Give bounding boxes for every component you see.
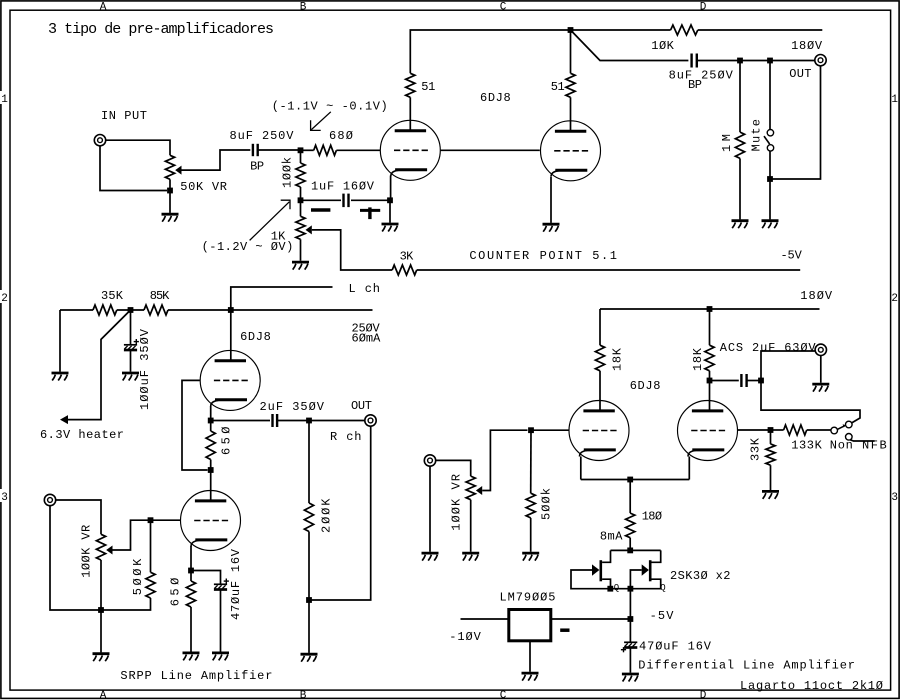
svg-text:50K VR: 50K VR bbox=[180, 180, 227, 194]
svg-text:1ØØK VR: 1ØØK VR bbox=[79, 525, 93, 578]
wire 100uF bottom to ground bbox=[130, 351, 132, 372]
wire grid node to tube V3a bbox=[531, 429, 569, 431]
frame row label 3 left bbox=[0, 489, 9, 504]
ground under 100uF bbox=[122, 373, 139, 381]
resistor 500k grid leak diff bbox=[526, 493, 535, 518]
input jack J1 bbox=[94, 135, 105, 146]
polarity minus mark 1uF bbox=[311, 208, 330, 212]
pot 50K VR wiper arrow bbox=[175, 166, 181, 175]
wire pot bottom to ground node bbox=[169, 179, 171, 213]
svg-text:R ch: R ch bbox=[330, 430, 362, 444]
wire srpp wiper up to grid node bbox=[113, 520, 151, 550]
wire 200K bottom bbox=[308, 532, 310, 601]
svg-text:OUT: OUT bbox=[789, 67, 811, 81]
svg-text:1: 1 bbox=[1, 94, 8, 106]
resistor 18K left plate bbox=[595, 345, 604, 371]
wire V3b cathode lead bbox=[688, 457, 690, 480]
wire SRPP supply rail bbox=[60, 309, 93, 311]
wire V2b cathode lead bbox=[190, 546, 192, 571]
wire 680 to tube V1a grid bbox=[336, 149, 380, 151]
wire 35K to 85K bbox=[117, 309, 144, 311]
capacitor ACS 2uF 630V bbox=[741, 374, 746, 387]
node cathode bus junction bbox=[627, 477, 633, 483]
wire V2a grid tie bbox=[182, 380, 208, 470]
potentiometer 100K VR diff element bbox=[466, 476, 475, 500]
ground under 1M bbox=[732, 221, 749, 229]
svg-text:2ØØK: 2ØØK bbox=[320, 498, 334, 533]
potentiometer 100K VR srpp element bbox=[96, 534, 105, 560]
svg-text:3: 3 bbox=[1, 492, 8, 504]
wire V1a 51 to rail bbox=[410, 30, 570, 73]
wire plate lead V2a bbox=[230, 310, 232, 361]
potentiometer 1K bias element bbox=[296, 216, 305, 239]
resistor 3K bias feed bbox=[392, 265, 417, 275]
svg-text:6DJ8: 6DJ8 bbox=[240, 330, 271, 344]
svg-text:D: D bbox=[700, 1, 707, 13]
svg-text:3K: 3K bbox=[400, 249, 414, 263]
potentiometer 50K VR element bbox=[165, 155, 174, 179]
wire 133K to switch bbox=[807, 429, 831, 431]
svg-text:(-1.2V ~ ØV): (-1.2V ~ ØV) bbox=[202, 240, 294, 254]
wire 100k from node down bbox=[300, 150, 302, 163]
tube V3a 6DJ8 diff left bbox=[569, 401, 629, 461]
wire NFB switch lower tail bbox=[850, 440, 874, 441]
wire rail to 10K bbox=[571, 29, 671, 31]
svg-text:(-1.1V ~ -0.1V): (-1.1V ~ -0.1V) bbox=[272, 99, 388, 113]
resistor 35K supply filter bbox=[93, 305, 117, 315]
svg-text:B: B bbox=[300, 690, 307, 700]
node SRPP grid junction bbox=[148, 517, 154, 523]
svg-text:A: A bbox=[100, 690, 107, 700]
polarity minus mark regulator bbox=[560, 628, 569, 632]
wire 2uF to out jack bbox=[277, 420, 364, 422]
frame row label 2 left bbox=[0, 290, 9, 305]
wire V1b 51 top to rail bbox=[570, 30, 572, 73]
capacitor 8uF 250V BP output bbox=[692, 54, 697, 68]
output jack OUT srpp bbox=[365, 415, 376, 426]
node diff rail junction bbox=[707, 306, 713, 312]
wire 1K bottom to ground bbox=[300, 239, 302, 260]
pot 1K wiper arrow bbox=[306, 225, 312, 234]
transistor Q2 2SK30 right bbox=[630, 550, 660, 588]
ground under diff jack bbox=[812, 384, 829, 392]
svg-text:47ØuF 16V: 47ØuF 16V bbox=[229, 548, 243, 620]
wire V2b grid lead bbox=[151, 519, 181, 521]
svg-text:6DJ8: 6DJ8 bbox=[630, 379, 661, 393]
wire diagonal rail to output line bbox=[571, 30, 689, 61]
wire input jack to volume pot top bbox=[106, 140, 170, 155]
ground under 1K pot bbox=[292, 262, 309, 270]
svg-text:IN PUT: IN PUT bbox=[101, 109, 147, 123]
wire cap to grid node bbox=[258, 149, 301, 151]
svg-text:C: C bbox=[500, 1, 507, 13]
capacitor 470uF 16V diff bbox=[621, 642, 637, 652]
ground under 50K VR bbox=[162, 214, 179, 222]
resistor 650 SRPP upper cathode bbox=[206, 431, 215, 460]
node mute junction bbox=[767, 58, 773, 64]
wire V3a cathode lead bbox=[580, 457, 582, 480]
wire diff supply rail bbox=[600, 308, 820, 310]
svg-text:1ØØk: 1ØØk bbox=[280, 157, 294, 188]
regulator LM79005 box bbox=[509, 610, 551, 641]
svg-text:8mA: 8mA bbox=[600, 530, 623, 544]
svg-text:5ØØk: 5ØØk bbox=[539, 488, 553, 520]
node SRPP output junction bbox=[208, 418, 214, 424]
ground under 470uF diff bbox=[622, 674, 639, 682]
svg-text:C: C bbox=[500, 690, 507, 700]
svg-text:Q: Q bbox=[660, 583, 665, 593]
wire cathode node up to V1a cathode bbox=[390, 176, 392, 201]
svg-text:18Ø: 18Ø bbox=[642, 510, 662, 524]
wire 33K to ground bbox=[770, 465, 772, 490]
tube V3b 6DJ8 diff right bbox=[678, 401, 738, 461]
wire diff wiper to grid bbox=[482, 430, 527, 490]
wire V3b grid to NFB node bbox=[738, 429, 771, 431]
wire diff jack to pot bbox=[436, 460, 471, 476]
wire 180 to FET node bbox=[629, 538, 631, 551]
wire grid node to 500K bbox=[150, 520, 152, 572]
wire 1M bottom to ground bbox=[739, 158, 741, 219]
capacitor 470uF 16V srpp bbox=[214, 579, 229, 590]
ground under 200K bbox=[301, 654, 318, 662]
ground SRPP rail left bbox=[52, 373, 69, 381]
svg-text:BP: BP bbox=[250, 160, 264, 174]
wire bias node to 1uF cap bbox=[301, 199, 342, 201]
input jack SRPP bbox=[44, 494, 55, 505]
svg-text:65Ø: 65Ø bbox=[168, 578, 182, 607]
ground under V1b cathode bbox=[543, 224, 560, 232]
output jack OUT top bbox=[815, 55, 826, 66]
node SRPP plate supply junction bbox=[228, 307, 234, 313]
svg-text:L ch: L ch bbox=[349, 282, 381, 296]
svg-text:133K: 133K bbox=[791, 439, 822, 453]
node grid divider junction bbox=[298, 147, 304, 153]
svg-text:85K: 85K bbox=[150, 289, 170, 303]
node cathode junction V1a bbox=[387, 197, 393, 203]
ground under Mute bbox=[762, 221, 779, 229]
wire bus to ground bbox=[100, 610, 102, 652]
output jack 630V diff bbox=[815, 344, 826, 355]
svg-text:2: 2 bbox=[1, 293, 8, 305]
wire FET drain bus bbox=[611, 549, 661, 551]
wire ACS cap to output node bbox=[747, 380, 761, 382]
wire out jack return srpp bbox=[309, 426, 371, 600]
node mute output junction bbox=[767, 176, 773, 182]
wire 133K left stub bbox=[771, 429, 784, 431]
ground under diff pot bbox=[462, 553, 479, 561]
switch Mute bbox=[764, 130, 774, 152]
svg-text:3 tipo de pre-amplificadores: 3 tipo de pre-amplificadores bbox=[48, 21, 274, 38]
resistor 133K feedback bbox=[784, 425, 807, 435]
wire midpoint to V2b plate bbox=[210, 470, 212, 501]
svg-text:1uF 16ØV: 1uF 16ØV bbox=[311, 179, 375, 193]
wire 100uF top bbox=[130, 310, 132, 344]
wire node to 680 resistor bbox=[301, 149, 314, 151]
wire 1M resistor top bbox=[739, 61, 741, 133]
ground under V1a cathode bbox=[382, 224, 399, 232]
wire rail to 18K left bbox=[599, 309, 601, 345]
wire L ch stub bbox=[231, 287, 333, 310]
svg-text:51: 51 bbox=[421, 80, 435, 94]
resistor 10K supply bbox=[671, 25, 698, 35]
resistor 200K load srpp bbox=[304, 503, 313, 532]
svg-text:OUT: OUT bbox=[351, 399, 372, 413]
svg-text:A: A bbox=[100, 1, 107, 13]
svg-text:47ØuF 16V: 47ØuF 16V bbox=[639, 640, 712, 654]
wire pot wiper to coupling cap bbox=[182, 150, 251, 170]
svg-text:5ØØK: 5ØØK bbox=[131, 558, 145, 595]
node srpp ground bus bbox=[98, 607, 104, 613]
wire bus to 180 bbox=[629, 480, 631, 514]
ground under 470uF srpp bbox=[212, 653, 229, 661]
node V2b cathode junction bbox=[188, 568, 194, 574]
svg-text:1ØØK VR: 1ØØK VR bbox=[450, 474, 464, 531]
ground srpp input bbox=[93, 654, 110, 662]
wire output node to jack bbox=[761, 351, 815, 381]
ground under 500k diff bbox=[522, 553, 539, 561]
svg-text:8uF 250V: 8uF 250V bbox=[230, 129, 295, 143]
ground under 650 lower bbox=[183, 653, 200, 661]
wire V1a plate up bbox=[409, 97, 411, 130]
wire 1K wiper to -5V line bbox=[312, 230, 392, 270]
wire NFB feedback path bbox=[761, 381, 860, 424]
pot srpp wiper arrow bbox=[106, 546, 112, 555]
ground under diff jack input bbox=[422, 553, 439, 561]
wire FET source bus bbox=[607, 588, 633, 590]
wire mute switch top bbox=[769, 61, 771, 130]
node 200K junction bbox=[306, 418, 312, 424]
tube V2a 6DJ8 SRPP upper bbox=[200, 350, 260, 410]
wire output node to 2uF bbox=[211, 420, 270, 422]
wire 470uF diff to ground bbox=[629, 648, 631, 673]
wire 200K top bbox=[308, 421, 310, 504]
wire 200K node to ground bbox=[308, 600, 310, 653]
wire srpp jack return bbox=[50, 506, 101, 610]
svg-text:1ØØuF 35ØV: 1ØØuF 35ØV bbox=[138, 328, 152, 410]
wire -10V input bbox=[461, 618, 509, 620]
polarity plus mark 1uF bbox=[360, 207, 380, 219]
svg-text:-5V: -5V bbox=[650, 609, 675, 623]
svg-text:68Ø: 68Ø bbox=[329, 129, 353, 143]
svg-text:6.3V heater: 6.3V heater bbox=[40, 428, 124, 442]
annotation arrow to grid bbox=[311, 112, 331, 131]
svg-text:18K: 18K bbox=[691, 347, 705, 371]
junction pot bottom bbox=[167, 188, 173, 194]
svg-text:18ØV: 18ØV bbox=[791, 39, 823, 53]
svg-text:51: 51 bbox=[551, 80, 565, 94]
node diff plate junction bbox=[707, 378, 713, 384]
wire regulator output bbox=[551, 618, 631, 620]
wire diff jack to ground bbox=[820, 356, 822, 383]
wire srpp jack to pot bbox=[56, 500, 101, 534]
svg-text:-5V: -5V bbox=[781, 249, 803, 263]
tube V1b 6DJ8 triode bbox=[541, 121, 601, 181]
node NFB junction bbox=[768, 427, 774, 433]
svg-text:2: 2 bbox=[891, 293, 898, 305]
wire output cap to jack bbox=[697, 60, 815, 62]
wire 650 to mid node bbox=[210, 460, 212, 471]
ground under LM79005 bbox=[522, 673, 539, 681]
tube V1a 6DJ8 triode bbox=[380, 120, 440, 180]
ground under 33K bbox=[762, 491, 779, 499]
svg-text:COUNTER POINT 5.1: COUNTER POINT 5.1 bbox=[469, 249, 617, 263]
pot diff wiper arrow bbox=[476, 486, 482, 495]
svg-text:18ØV: 18ØV bbox=[800, 289, 833, 303]
transistor Q1 2SK30 left bbox=[571, 550, 611, 588]
svg-text:35K: 35K bbox=[101, 289, 124, 303]
resistor 100k grid leak bbox=[296, 163, 305, 187]
node 1M junction bbox=[737, 58, 743, 64]
resistor 85K supply filter bbox=[144, 305, 168, 315]
node supply rail junction bbox=[568, 27, 574, 33]
wire 500K bottom to bus bbox=[101, 598, 151, 610]
wire 500k to ground bbox=[530, 518, 532, 552]
wire grid link V1a to V1b bbox=[441, 149, 540, 151]
wire V1b plate lead bbox=[570, 97, 572, 131]
resistor 1M load bbox=[735, 132, 744, 158]
node SRPP midpoint bbox=[208, 467, 214, 473]
node diff output junction bbox=[758, 378, 764, 384]
annotation arrow to bias node bbox=[250, 200, 290, 240]
capacitor 2uF 350V output bbox=[273, 414, 278, 427]
resistor 33K grid leak bbox=[766, 444, 775, 465]
svg-text:2SK3Ø x2: 2SK3Ø x2 bbox=[670, 569, 731, 583]
wire 1uF to cathode node bbox=[351, 199, 390, 201]
wire OUT jack return bbox=[770, 66, 821, 179]
svg-text:D: D bbox=[700, 690, 707, 700]
wire 650 upper top bbox=[210, 421, 212, 432]
heater arrow bbox=[60, 415, 68, 424]
wire 650 lower to ground bbox=[190, 607, 192, 652]
wire rail to 18K right bbox=[709, 309, 711, 345]
wire 470uF to ground bbox=[220, 590, 222, 652]
wire cathode node to 470uF bbox=[191, 571, 221, 585]
node 100uF junction bbox=[128, 307, 134, 313]
tube V2b 6DJ8 SRPP lower bbox=[181, 491, 241, 551]
svg-text:65Ø: 65Ø bbox=[219, 427, 233, 456]
node -5V junction bbox=[628, 616, 634, 622]
wire 33K top bbox=[770, 430, 772, 444]
wire 85K to plate node bbox=[168, 309, 373, 311]
resistor 51 V1a plate bbox=[406, 73, 415, 97]
node FET source junction left bbox=[607, 586, 613, 592]
node FET source junction right bbox=[628, 586, 634, 592]
svg-text:LM79ØØ5: LM79ØØ5 bbox=[500, 591, 556, 605]
wire 100k to bias node bbox=[300, 187, 302, 200]
wire cathode bus bbox=[581, 479, 690, 481]
svg-text:Lagarto 11oct 2k1Ø: Lagarto 11oct 2k1Ø bbox=[740, 679, 883, 693]
wire srpp pot bottom bbox=[100, 560, 102, 610]
resistor 500K grid leak srpp bbox=[146, 572, 155, 598]
svg-text:6DJ8: 6DJ8 bbox=[480, 91, 511, 105]
input jack diff bbox=[424, 455, 435, 466]
resistor 650 SRPP lower cathode bbox=[186, 581, 195, 607]
wire 500k top bbox=[530, 430, 532, 493]
switch NFB bbox=[831, 421, 852, 440]
svg-text:B: B bbox=[300, 1, 307, 13]
svg-text:6ØmA: 6ØmA bbox=[352, 332, 382, 346]
wire mute bottom to ground bbox=[769, 151, 771, 219]
wire V2a cathode lead bbox=[210, 406, 212, 421]
node diff grid junction bbox=[528, 427, 534, 433]
wire 18K right to plate node bbox=[709, 371, 711, 410]
resistor 18K right plate bbox=[705, 345, 714, 371]
node bias junction 100k 1K 1uF bbox=[298, 197, 304, 203]
svg-text:-1ØV: -1ØV bbox=[449, 630, 481, 644]
wire 10K to 180V end bbox=[698, 29, 823, 31]
node FET drain junction bbox=[627, 548, 633, 554]
svg-text:33K: 33K bbox=[748, 437, 762, 461]
wire heater feed diagonal bbox=[68, 310, 131, 420]
wire diff jack return bbox=[429, 466, 431, 552]
svg-text:ACS 2uF 63ØV: ACS 2uF 63ØV bbox=[720, 341, 817, 355]
wire plate node to ACS cap bbox=[710, 380, 739, 382]
svg-text:Differential Line Amplifier: Differential Line Amplifier bbox=[638, 659, 855, 673]
wire rail left down to ground bbox=[59, 310, 61, 372]
wire diff pot bottom bbox=[470, 500, 472, 552]
wire V1b cathode to ground bbox=[550, 177, 552, 223]
wire bias node to 1K top bbox=[300, 200, 302, 216]
svg-text:Non: Non bbox=[830, 439, 853, 453]
svg-text:1ØK: 1ØK bbox=[651, 39, 674, 53]
svg-text:1: 1 bbox=[891, 94, 898, 106]
svg-text:NFB: NFB bbox=[862, 439, 887, 453]
capacitor 100uF 350V electrolytic bbox=[124, 339, 139, 350]
node 200K ground junction bbox=[306, 597, 312, 603]
wire FET to -5V node bbox=[629, 589, 631, 619]
wire 3K to -5V end bbox=[417, 269, 801, 271]
resistor 180 source bbox=[626, 513, 635, 538]
resistor 51 V1b plate bbox=[566, 73, 575, 97]
capacitor 8uF 250V BP input bbox=[253, 144, 258, 156]
frame row label 1 left bbox=[0, 91, 9, 106]
svg-text:18K: 18K bbox=[610, 347, 624, 371]
wire input jack ground side bbox=[100, 146, 167, 191]
wire -5V node to 470uF bbox=[629, 619, 631, 642]
wire regulator ground pin bbox=[529, 641, 531, 672]
capacitor 1uF 160V cathode bypass bbox=[344, 194, 349, 208]
svg-text:BP: BP bbox=[688, 78, 702, 92]
svg-text:Q: Q bbox=[614, 583, 619, 593]
svg-text:SRPP Line Amplifier: SRPP Line Amplifier bbox=[120, 669, 272, 683]
wire 650 lower top bbox=[190, 571, 192, 582]
svg-text:Mute: Mute bbox=[750, 119, 764, 151]
wire 18K left to plate bbox=[599, 371, 601, 410]
svg-text:3: 3 bbox=[891, 492, 898, 504]
svg-text:2uF 35ØV: 2uF 35ØV bbox=[260, 400, 325, 414]
resistor 680 grid stopper bbox=[314, 145, 337, 155]
wire cathode node to ground bbox=[389, 200, 391, 222]
